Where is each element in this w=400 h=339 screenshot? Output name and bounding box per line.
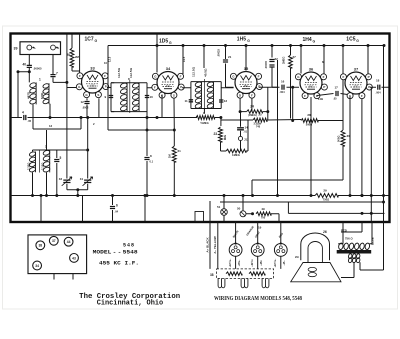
IFT2 capacitor C13	[219, 100, 223, 102]
resistor R25	[253, 118, 267, 122]
wire R25 leads	[248, 119, 301, 122]
wire R30 to screen	[252, 146, 343, 196]
svg-text:.04: .04	[115, 210, 119, 214]
trimmer C31	[84, 180, 91, 182]
svg-text:F: F	[304, 94, 306, 98]
transformer T26 primary	[338, 243, 344, 250]
svg-text:27: 27	[293, 55, 297, 59]
pilot lamp 51	[221, 209, 228, 216]
wire V33 pin lead	[98, 98, 100, 117]
wire R15 leads	[221, 150, 249, 152]
cable prong 3	[262, 278, 269, 287]
wire R23 down	[220, 142, 222, 151]
svg-text:40.5Ω: 40.5Ω	[204, 68, 208, 77]
coil L2 oscillator 2.35ohm	[29, 151, 36, 157]
svg-text:.00035: .00035	[264, 61, 268, 69]
svg-text:F: F	[79, 74, 81, 78]
svg-text:21: 21	[228, 55, 232, 59]
wire tube V34 bottom	[162, 46, 183, 131]
cable prong 2	[241, 278, 248, 287]
svg-text:37G: 37G	[354, 86, 359, 89]
wire R24 leads	[240, 87, 268, 120]
wire long vertical mid	[277, 60, 279, 196]
svg-text:750Ω: 750Ω	[323, 198, 329, 202]
wire A- yellow lead	[217, 222, 219, 269]
coil L1 primary 447ohm	[29, 82, 37, 88]
capacitor C6	[110, 207, 115, 209]
svg-text:34: 34	[166, 66, 171, 71]
wire IFT1 to tubes	[107, 87, 154, 89]
svg-text:31: 31	[80, 177, 84, 181]
coil IFT1 primary	[120, 82, 128, 89]
svg-text:548: 548	[123, 243, 135, 249]
resistor R29	[315, 194, 338, 198]
wire lamp leads	[223, 196, 225, 222]
wire trimmer join	[67, 184, 88, 196]
IFT2 rails	[191, 82, 221, 114]
wire grid tap to tube V33	[67, 87, 77, 89]
capacitor C14	[237, 128, 244, 130]
svg-text:P: P	[105, 85, 107, 89]
battery plug P1	[229, 244, 242, 257]
tube V35 1H5G	[235, 72, 257, 94]
svg-text:756 Ω: 756 Ω	[345, 237, 353, 241]
svg-text:5: 5	[60, 156, 62, 160]
wire tube V35 bottom leads	[240, 99, 252, 112]
svg-text:2MEG: 2MEG	[282, 57, 286, 64]
IFT1 left tuning wire	[111, 83, 114, 112]
svg-text:51: 51	[217, 205, 221, 209]
svg-text:A– YELLOW: A– YELLOW	[213, 236, 217, 254]
svg-text:WIRING DIAGRAM MODELS 548, 554: WIRING DIAGRAM MODELS 548, 5548	[214, 296, 302, 302]
svg-text:Cincinnati, Ohio: Cincinnati, Ohio	[97, 300, 164, 308]
wire L1 bottom leads	[33, 104, 50, 129]
wire vol to R23	[215, 118, 221, 127]
svg-text:50M: 50M	[223, 135, 227, 140]
jack box on border	[195, 212, 204, 222]
svg-text:26: 26	[323, 230, 327, 234]
wire osc bus left	[33, 118, 81, 130]
resistor R8 volume	[196, 116, 215, 120]
tube V34 1D5G	[157, 72, 179, 94]
svg-text:F: F	[258, 74, 260, 78]
svg-text:0.1: 0.1	[150, 160, 154, 164]
transformer T26 core	[337, 250, 372, 254]
svg-text:30: 30	[347, 134, 351, 138]
capacitor C40	[27, 65, 32, 67]
svg-text:14.5: 14.5	[182, 56, 186, 62]
svg-text:F: F	[251, 93, 253, 97]
svg-text:14Ω: 14Ω	[318, 97, 323, 101]
svg-text:36: 36	[309, 67, 314, 72]
wire jack down	[221, 120, 249, 151]
resistor R15 1meg	[226, 149, 246, 153]
node dot osc top	[86, 149, 89, 152]
svg-text:G: G	[356, 39, 359, 43]
IF unit terminal 34	[33, 261, 42, 270]
svg-text:(1MEG): (1MEG)	[248, 114, 257, 117]
capacitor C16	[282, 85, 284, 90]
wire C8 leads	[146, 118, 148, 196]
svg-text:19: 19	[258, 226, 262, 230]
svg-text:G: G	[169, 41, 172, 45]
resistor R23	[219, 127, 223, 142]
speaker SP26 magnet	[301, 233, 330, 260]
switch 50	[240, 211, 246, 217]
svg-text:2.15Ω: 2.15Ω	[40, 162, 44, 170]
svg-text:35G: 35G	[244, 85, 249, 88]
svg-text:A+ BLACK: A+ BLACK	[205, 237, 209, 253]
node dots AVC bus	[49, 116, 52, 119]
svg-text:G: G	[57, 47, 59, 50]
wire AVC bus	[11, 117, 198, 119]
wire third bottom bus	[288, 202, 384, 213]
wire verticals from top bus	[108, 34, 384, 222]
wire R20 lead	[71, 35, 73, 49]
capacitor C18	[378, 85, 380, 90]
IFT1 top bottom rails	[111, 83, 147, 112]
svg-text:F: F	[180, 74, 182, 78]
svg-text:32: 32	[59, 177, 63, 181]
svg-text:.0002: .0002	[82, 106, 89, 110]
svg-text:12: 12	[81, 100, 85, 104]
cable prong 1	[218, 278, 225, 287]
trimmer C32	[63, 180, 70, 182]
svg-text:.00025: .00025	[217, 49, 221, 57]
svg-text:+22½v–: +22½v–	[228, 258, 232, 267]
capacitor C8	[144, 158, 149, 160]
coil L2 oscillator 2.15ohm	[43, 150, 51, 156]
capacitor C17	[336, 91, 338, 96]
wire R61 leads	[173, 130, 175, 196]
capacitor C22 .00035	[269, 60, 274, 62]
wire R20 bottom	[72, 67, 80, 71]
tube V33 1C7G	[82, 71, 104, 93]
wire top B+ bus	[108, 45, 384, 47]
node dots on top bus	[156, 44, 159, 47]
svg-text:38: 38	[38, 244, 42, 248]
svg-text:500Ω: 500Ω	[306, 123, 312, 127]
wire tube V36 leads	[293, 87, 311, 195]
svg-text:112.5Ω: 112.5Ω	[117, 67, 121, 78]
svg-text:28: 28	[307, 113, 311, 117]
node dots bottom bus	[31, 194, 34, 197]
wire C17 leads	[317, 94, 348, 96]
svg-text:+45v: +45v	[260, 260, 263, 266]
battery pack dashed box	[217, 269, 274, 279]
svg-text:13: 13	[224, 99, 228, 103]
svg-text:34: 34	[35, 264, 39, 268]
svg-text:1C7: 1C7	[85, 37, 94, 43]
capacitor C7	[50, 75, 55, 77]
node dot trimmer join	[76, 188, 79, 191]
terminal strip TS1	[20, 42, 61, 55]
wire bottom ground bus	[11, 195, 390, 197]
coil IFT2 secondary	[207, 81, 215, 87]
wire antenna leads	[18, 55, 67, 118]
svg-text:.004: .004	[376, 91, 382, 95]
IFT1 capacitor C9	[109, 96, 113, 98]
node dots R24	[239, 110, 242, 113]
resistor battery R b	[249, 272, 265, 276]
svg-text:F: F	[342, 75, 344, 79]
wire C14 branch	[240, 112, 242, 137]
wire IFT2 to tube V35	[182, 87, 234, 89]
wire trimmer C32 leads	[66, 34, 68, 179]
svg-text:700: 700	[261, 216, 266, 220]
svg-text:F: F	[323, 75, 325, 79]
speaker SP26 cone	[291, 263, 341, 282]
coil L1 secondary 6.5ohm	[42, 83, 49, 89]
svg-text:33: 33	[90, 66, 95, 71]
IFT2 core	[203, 79, 205, 110]
svg-text:7: 7	[56, 72, 58, 76]
svg-text:49: 49	[261, 207, 265, 211]
svg-text:F: F	[104, 74, 106, 78]
svg-text:1MEG: 1MEG	[232, 153, 240, 157]
svg-text:2M: 2M	[75, 55, 80, 59]
svg-text:23: 23	[214, 132, 218, 136]
svg-text:500Ω: 500Ω	[337, 136, 341, 142]
wire switch leads	[243, 196, 253, 214]
resistor R28 500ohm	[301, 119, 318, 123]
svg-text:2.35Ω: 2.35Ω	[27, 162, 31, 170]
svg-text:25: 25	[258, 113, 262, 117]
svg-text:18: 18	[376, 79, 380, 83]
svg-text:–45–: –45–	[283, 260, 286, 266]
svg-text:447Ω: 447Ω	[27, 91, 31, 99]
svg-text:29: 29	[323, 189, 327, 193]
svg-text:.01: .01	[244, 131, 248, 134]
IF unit legs	[54, 274, 73, 280]
IFT2 capacitor C11	[189, 100, 193, 102]
wire transformer leads	[338, 222, 383, 278]
svg-text:P: P	[258, 85, 260, 89]
svg-text:11: 11	[185, 99, 189, 103]
wire A+ black lead	[209, 201, 211, 269]
resistor battery R a	[226, 272, 242, 276]
resistor R27	[289, 55, 293, 68]
transformer T26 secondary	[348, 253, 352, 258]
schematic border frame	[11, 34, 390, 223]
resistor R20	[70, 48, 74, 67]
svg-text:.004: .004	[280, 90, 286, 94]
wire tube V37 bottom leads	[350, 97, 362, 196]
svg-text:.00005: .00005	[33, 67, 42, 71]
svg-text:G: G	[247, 39, 250, 43]
tube V36 1H4G	[300, 72, 322, 94]
IFT2 left tuning wire	[190, 82, 192, 109]
svg-text:F: F	[361, 94, 363, 98]
capacitor C5	[54, 160, 59, 162]
svg-text:16: 16	[281, 80, 285, 84]
svg-text:1C5: 1C5	[346, 37, 355, 43]
capacitor C4	[24, 115, 26, 120]
speaker voice coil	[308, 267, 316, 271]
svg-text:+45v–: +45v–	[238, 259, 241, 266]
svg-text:740: 740	[256, 125, 261, 128]
svg-text:+22½v: +22½v	[250, 259, 254, 267]
resistor R30 500ohm	[341, 130, 345, 146]
IF unit terminal 38	[36, 241, 45, 250]
coil IFT1 secondary	[132, 82, 140, 89]
svg-text:37: 37	[52, 239, 56, 243]
IF unit terminal 43	[70, 254, 79, 263]
capacitor C21 .00025	[223, 60, 228, 62]
svg-text:1M: 1M	[168, 154, 172, 158]
svg-text:MODEL - - 5548: MODEL - - 5548	[93, 250, 138, 256]
node dots osc bus	[146, 129, 149, 132]
wire R28 lead	[318, 121, 343, 131]
svg-text:37: 37	[354, 67, 359, 72]
svg-text:24: 24	[250, 105, 254, 109]
battery plug P3	[274, 244, 287, 257]
IF unit terminal 44	[64, 237, 73, 246]
node dots antenna	[17, 70, 20, 73]
svg-text:455 KC I.F.: 455 KC I.F.	[99, 261, 139, 267]
svg-text:P: P	[368, 75, 370, 79]
svg-text:36G: 36G	[309, 86, 314, 89]
wire plug leads	[236, 222, 281, 269]
svg-text:1D5: 1D5	[159, 39, 168, 45]
svg-text:112.5Ω: 112.5Ω	[192, 66, 196, 77]
svg-text:S: S	[97, 93, 99, 97]
svg-text:12.5: 12.5	[108, 56, 112, 62]
svg-text:10: 10	[104, 61, 107, 65]
svg-text:17: 17	[335, 86, 339, 90]
svg-text:38: 38	[210, 273, 214, 277]
wire C6 leads	[112, 196, 114, 222]
wire trimmer C31 leads	[87, 118, 89, 179]
svg-text:13: 13	[49, 124, 53, 128]
wire grid lead V33	[79, 34, 81, 74]
resistor R61 1meg	[172, 146, 176, 162]
IFT1 core	[129, 80, 131, 113]
svg-text:.05: .05	[333, 97, 337, 101]
resistor R24	[247, 110, 263, 114]
svg-text:39: 39	[14, 47, 18, 51]
capacitor C12	[84, 102, 89, 104]
svg-text:1: 1	[39, 78, 41, 82]
wire R27 down	[290, 68, 292, 119]
wire C16 leads	[259, 86, 293, 88]
jack J12	[238, 136, 242, 140]
svg-text:43: 43	[72, 256, 76, 260]
node dot switch	[251, 212, 254, 215]
svg-text:+22½v–: +22½v–	[273, 258, 277, 267]
node dots lower right	[361, 194, 364, 197]
tube V37 1C5G	[345, 72, 367, 94]
svg-text:G: G	[95, 39, 98, 43]
svg-text:35: 35	[244, 66, 249, 71]
IF unit terminal 37	[49, 236, 58, 245]
coil L2 core	[39, 150, 41, 173]
svg-text:.05: .05	[28, 119, 32, 123]
svg-text:33G: 33G	[90, 85, 95, 88]
wire C18 leads	[370, 87, 390, 221]
wire tube V33 bottom leads	[86, 98, 88, 117]
svg-text:6: 6	[116, 204, 118, 208]
svg-text:1H4: 1H4	[303, 37, 312, 43]
svg-text:P: P	[180, 85, 182, 89]
svg-text:50: 50	[237, 207, 241, 211]
wire second bottom bus	[220, 201, 385, 203]
coil IFT2 primary	[195, 81, 203, 87]
wire left chassis drops	[41, 196, 145, 222]
IFT1 capacitor C10	[145, 96, 149, 98]
svg-text:44: 44	[67, 240, 71, 244]
wire osc bus right	[108, 46, 174, 131]
wire R49 to battery	[271, 214, 279, 222]
IF unit box	[28, 235, 87, 274]
svg-text:G: G	[313, 40, 316, 44]
wire C21 to V35 grid	[226, 64, 234, 88]
node dot vol	[219, 116, 222, 119]
svg-text:A: A	[34, 47, 36, 50]
svg-text:34G: 34G	[166, 85, 171, 88]
svg-text:40: 40	[23, 63, 27, 67]
svg-text:F: F	[154, 85, 156, 89]
svg-text:S: S	[173, 93, 175, 97]
svg-text:½MEG: ½MEG	[200, 121, 209, 125]
battery plug P2	[251, 244, 264, 257]
svg-text:61: 61	[178, 149, 182, 153]
svg-text:10: 10	[150, 95, 154, 99]
IFT1 right tuning wire	[146, 83, 148, 118]
svg-text:1H5: 1H5	[237, 37, 246, 43]
svg-text:6.5Ω: 6.5Ω	[40, 92, 44, 99]
wire C5 leads	[56, 150, 58, 196]
resistor R49 700ohm	[256, 212, 271, 216]
svg-text:P: P	[323, 85, 325, 89]
wire L2 leads	[33, 130, 88, 196]
wire C22 down	[272, 67, 278, 87]
svg-text:4: 4	[22, 111, 24, 115]
